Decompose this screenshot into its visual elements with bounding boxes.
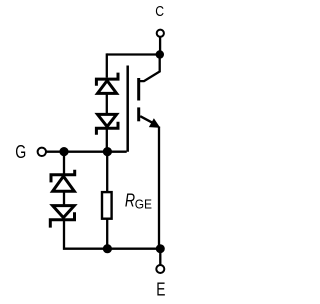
svg-text:E: E — [156, 278, 165, 299]
svg-text:G: G — [15, 142, 26, 162]
svg-text:GE: GE — [135, 196, 153, 211]
svg-text:R: R — [125, 189, 135, 210]
svg-text:C: C — [155, 3, 164, 20]
